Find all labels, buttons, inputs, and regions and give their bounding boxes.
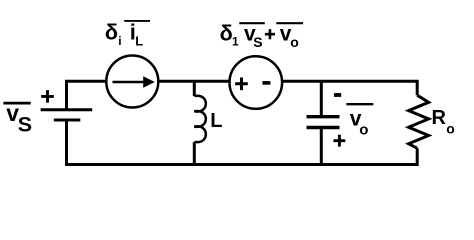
svg-text:S: S [18, 112, 32, 136]
wire: top rail from voltage source to top-right corner [282, 81, 418, 95]
wire: inductor bottom lead [193, 142, 196, 165]
battery plus label [41, 90, 54, 103]
svg-text:i: i [118, 34, 121, 48]
label iL overline [124, 20, 150, 22]
wire: inductor top lead [193, 81, 196, 96]
capacitor label vo overline [346, 103, 373, 105]
svg-text:o: o [359, 122, 368, 139]
label vo overline (source label) [276, 22, 303, 24]
label plus sign between terms [265, 29, 275, 39]
wire: top rail between current source and voltage source [159, 80, 230, 83]
voltage source minus sign [262, 81, 270, 85]
svg-text:δ: δ [105, 19, 118, 44]
capacitor plus label [334, 135, 346, 147]
voltage source U2 circle [230, 56, 283, 109]
wire: capacitor bottom lead [320, 129, 323, 165]
wire: battery bottom lead + bottom rail + resistor bottom lead [67, 121, 418, 165]
capacitor minus label [334, 93, 341, 97]
svg-text:o: o [290, 34, 299, 50]
inductor L1 coil [194, 96, 206, 142]
wire: capacitor top lead [320, 81, 323, 116]
node label vS overline [3, 102, 30, 105]
voltage source plus sign [235, 78, 248, 91]
wire: battery top lead + top rail segment to current source [67, 81, 107, 108]
svg-text:L: L [210, 110, 222, 132]
current source arrow [113, 81, 146, 84]
label vS overline (source label) [239, 22, 264, 24]
battery V1 long plate [41, 108, 93, 111]
capacitor C1 bottom plate [307, 126, 340, 129]
svg-text:R: R [432, 107, 447, 129]
battery V1 short plate [54, 118, 81, 121]
svg-text:o: o [446, 121, 455, 137]
svg-text:1: 1 [232, 35, 239, 49]
current source U1 circle [106, 56, 158, 108]
resistor Ro zigzag [409, 95, 429, 148]
capacitor C1 top plate [307, 115, 340, 118]
svg-text:S: S [253, 34, 262, 50]
svg-text:δ: δ [220, 21, 233, 46]
svg-text:L: L [135, 34, 143, 49]
